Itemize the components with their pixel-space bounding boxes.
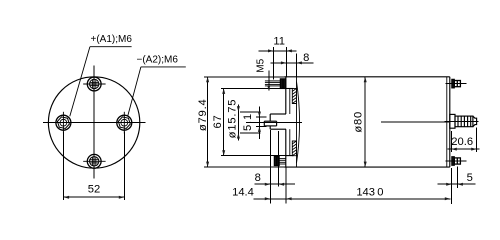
svg-text:8: 8 bbox=[255, 172, 261, 184]
cap left face lower segment bbox=[285, 129, 287, 167]
M5 leader bbox=[268, 71, 270, 91]
shaft bore step bbox=[276, 121, 278, 126]
front view vertical center line bbox=[93, 66, 95, 179]
dim 67 extension bottom bbox=[221, 155, 294, 157]
dim 67 line bbox=[223, 88, 225, 155]
right top mounting bolt bbox=[452, 79, 455, 88]
dim 11 line bbox=[259, 50, 297, 52]
dim 143 0 right arrow bbox=[445, 197, 451, 200]
dim ø15.75 extensions bbox=[240, 111, 261, 113]
side view: motor body top edge bbox=[285, 76, 450, 78]
leader underline for -(A2);M6 bbox=[141, 66, 186, 68]
dimension 52: extension lines bbox=[63, 132, 65, 201]
front view horizontal center line bbox=[43, 122, 145, 124]
dim 8 bottom line bbox=[254, 183, 294, 185]
svg-text:ø79.4: ø79.4 bbox=[197, 98, 209, 131]
bottom through-bolt screw head bbox=[87, 154, 101, 168]
dim 8 top: extension bbox=[295, 54, 297, 77]
svg-text:14.4: 14.4 bbox=[232, 186, 254, 198]
top terminal stud nut bbox=[280, 79, 286, 89]
top screw horizontal tick bbox=[83, 83, 105, 85]
crimp hatch band top bbox=[292, 88, 296, 103]
dim ø79.4 line bbox=[207, 77, 209, 167]
dim ø15.75 line bbox=[237, 105, 239, 141]
dim 67 extension top bbox=[221, 87, 294, 89]
center boss outer bottom edge bbox=[270, 128, 286, 130]
front view: big circle (motor end cap outline) bbox=[48, 77, 139, 168]
dim ø80 line bbox=[364, 77, 366, 167]
dim 5.1 extensions bbox=[256, 116, 267, 118]
shaft end bottom edge bbox=[264, 125, 276, 127]
right bottom mounting bolt bbox=[452, 157, 455, 166]
leader line to terminal A1 bbox=[70, 47, 90, 117]
top through-bolt screw head bbox=[87, 77, 101, 91]
output shaft threaded rod bbox=[455, 116, 473, 127]
shaft end top edge bbox=[264, 120, 276, 122]
svg-text:ø80: ø80 bbox=[352, 111, 364, 133]
nut seat line bottom bbox=[286, 155, 294, 157]
svg-text:11: 11 bbox=[273, 35, 285, 47]
terminal A2 hex nut (right) bbox=[117, 115, 132, 130]
dim 20.6 line bbox=[448, 148, 480, 150]
nut seat line top bbox=[286, 87, 294, 89]
right end plate edge bbox=[449, 77, 451, 167]
leader underline for +(A1);M6 bbox=[90, 46, 132, 48]
terminal A1 vertical tick bbox=[62, 112, 64, 134]
dim 8 top line bbox=[271, 62, 314, 64]
dim 20.6 extensions bbox=[450, 131, 452, 152]
dim 5 right line bbox=[438, 183, 476, 185]
svg-text:67: 67 bbox=[212, 114, 224, 128]
svg-text:5.1: 5.1 bbox=[242, 113, 254, 131]
cap left face upper segment bbox=[285, 77, 287, 114]
side view: motor body bottom edge bbox=[285, 166, 450, 168]
dim 5.1 line bbox=[258, 107, 260, 140]
center boss outer (ø15.75) top edge bbox=[270, 113, 286, 115]
left center line bbox=[246, 121, 302, 123]
svg-text:143 0: 143 0 bbox=[356, 186, 383, 198]
svg-text:8: 8 bbox=[303, 52, 309, 64]
bottom terminal stud nut bbox=[274, 156, 279, 165]
bottom extension lines bbox=[269, 130, 271, 203]
center boss left face upper bbox=[269, 114, 271, 121]
dim 14.4 + 143.0 shared line bbox=[254, 198, 451, 200]
svg-text:−(A2);M6: −(A2);M6 bbox=[137, 55, 179, 66]
svg-text:20.6: 20.6 bbox=[451, 136, 473, 148]
dim 11 extensions bbox=[273, 47, 275, 80]
top terminal stud threads bbox=[265, 80, 280, 82]
svg-text:52: 52 bbox=[88, 184, 100, 196]
cap/body joint line bbox=[296, 77, 298, 167]
crimp hatch band bottom bbox=[292, 141, 296, 156]
dim ø79.4 extension bottom bbox=[204, 166, 285, 168]
svg-text:M5: M5 bbox=[255, 58, 266, 72]
dim ø79.4 extension top bbox=[204, 76, 285, 78]
output shaft collar bbox=[450, 114, 455, 128]
cap inner wall upper bbox=[289, 88, 291, 114]
svg-text:+(A1);M6: +(A1);M6 bbox=[91, 34, 133, 45]
shaft axis center line bbox=[445, 120, 479, 122]
bottom terminal stud threads bbox=[279, 158, 286, 160]
terminal A1 hex nut (left) bbox=[56, 115, 71, 130]
center boss left face lower bbox=[269, 126, 271, 129]
terminal A2 vertical tick bbox=[123, 112, 125, 134]
shaft end left face bbox=[263, 121, 265, 126]
body center line bbox=[381, 121, 449, 123]
dimension 52: dimension line with arrows bbox=[64, 196, 125, 198]
right end plate inner line bbox=[446, 77, 448, 167]
svg-text:5: 5 bbox=[467, 172, 473, 184]
leader line to terminal A2 bbox=[128, 67, 141, 116]
shaft tip chamfer bbox=[473, 116, 477, 127]
cap inner wall lower bbox=[289, 129, 291, 156]
bottom screw horizontal tick bbox=[83, 160, 105, 162]
svg-text:ø15.75: ø15.75 bbox=[227, 99, 239, 139]
cap dome arc bbox=[297, 82, 300, 163]
